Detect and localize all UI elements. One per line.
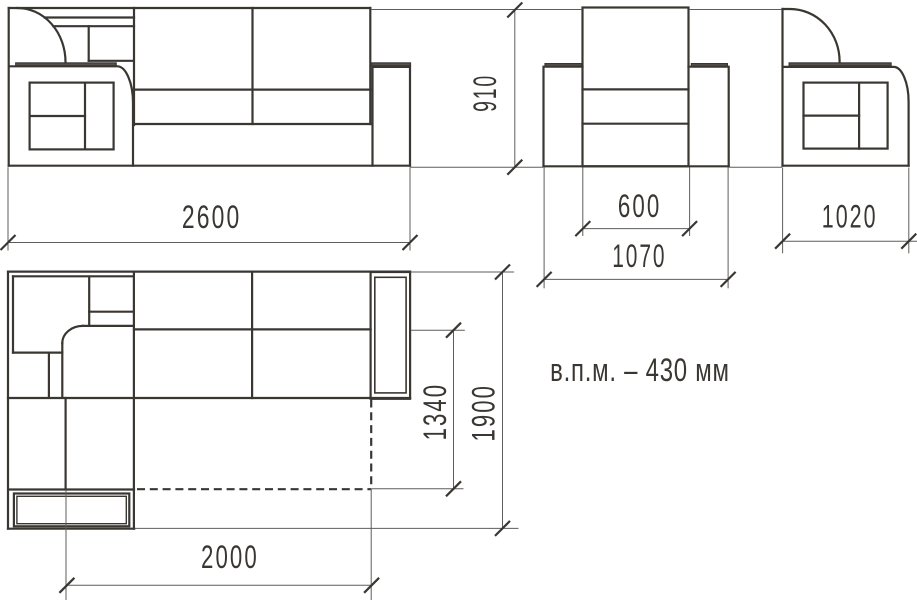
plan view: lower-left compartment shelf — [13, 352, 62, 354]
plan view: corner seat rounded corner — [62, 326, 83, 343]
sofa front view: corner compartment divider vertical — [84, 83, 86, 150]
dim 2600 extensions — [7, 167, 9, 250]
sofa front view: left shelf bar (filled) — [16, 63, 117, 66]
plan view: inner wall top — [13, 275, 134, 277]
plan view: footrest outer rect — [14, 494, 129, 527]
plan view: left edge — [7, 272, 9, 529]
chair front view: seat line lower — [583, 123, 689, 125]
plan view: footrest inner rect — [17, 496, 126, 523]
dim 1900 line — [502, 272, 504, 528]
ticks 2000 — [59, 578, 74, 593]
plan view: bottom edge — [8, 528, 134, 530]
ticks 600 — [575, 221, 590, 236]
svg-text:1900: 1900 — [465, 384, 501, 441]
side view: left edge — [781, 9, 783, 166]
sofa front view: corner compartment divider horizontal — [30, 115, 85, 117]
sofa front view: left canopy arc — [18, 8, 66, 62]
sofa front view: seat line upper — [134, 88, 370, 90]
extension: baseline between views — [411, 166, 544, 168]
bed extension dashed outline — [137, 400, 371, 490]
side view: compartment divider horizontal — [804, 114, 860, 116]
ticks 1020 — [775, 234, 790, 249]
dim 600 line — [583, 228, 690, 230]
extension: sofa top to 910 dim and to side view — [371, 9, 582, 11]
plan view: corner compartment shelf — [89, 311, 134, 313]
plan view: corner seat back line — [83, 325, 134, 327]
dim 1020 extensions — [782, 168, 784, 254]
sofa front view: right armrest top bar (filled) — [372, 63, 411, 66]
chair front view: seat line upper — [583, 88, 689, 90]
ticks 1340 — [446, 323, 461, 338]
chair front view: base line — [544, 165, 729, 167]
dim 910 line — [514, 10, 516, 167]
chair front view: left armrest body — [544, 67, 583, 167]
dimension texts — [182, 74, 878, 575]
sofa front view: base line — [9, 165, 410, 167]
sofa front view: corner compartment outer rect — [30, 83, 114, 150]
svg-text:2000: 2000 — [201, 539, 259, 575]
chair front view: right armrest body — [689, 67, 729, 167]
sofa front view: backrest left edge — [133, 8, 135, 125]
ticks 1900 — [495, 265, 510, 280]
sofa front view: backrest right edge — [369, 8, 371, 124]
chair front view: right armrest top bar (filled) — [691, 64, 727, 67]
side view: body top and right curve — [783, 67, 909, 166]
sofa front view: corner niche shelf — [89, 60, 134, 62]
sofa front view: backrest divider — [251, 8, 253, 124]
svg-text:600: 600 — [618, 188, 661, 224]
svg-text:1020: 1020 — [822, 198, 878, 234]
plan view: corner compartment vertical — [88, 277, 90, 326]
chair front view: left armrest top bar (filled) — [545, 64, 582, 67]
sofa front view: top line — [9, 7, 371, 9]
dim 1070 line — [544, 278, 728, 280]
svg-text:1340: 1340 — [417, 383, 453, 441]
sofa front view: seat line lower — [134, 123, 370, 125]
sofa front view: corner niche vertical — [88, 26, 90, 61]
dim 2000 extensions — [65, 490, 67, 600]
sofa front view: corner body top and right curve — [11, 66, 134, 165]
sofa front view: back rail line 2 — [53, 25, 134, 27]
side view: top canopy arc — [783, 9, 840, 62]
svg-text:в.п.м. – 430 мм: в.п.м. – 430 мм — [550, 351, 730, 387]
plan view: seat band bottom edge — [8, 397, 410, 399]
dim 1020 line — [783, 240, 917, 242]
side view: shelf bar (filled) — [789, 63, 891, 66]
plan view: top edge — [8, 271, 410, 273]
dim 1070 extensions — [543, 168, 545, 289]
plan view: chaise footrest top line — [9, 488, 134, 490]
dim 2000 line — [66, 584, 371, 586]
sofa front view: back rail line 1 — [45, 16, 134, 18]
side view: base line — [783, 165, 909, 167]
dim 2600 line — [8, 242, 410, 244]
plan view: corner seat left edge — [61, 343, 63, 398]
sofa front view: right armrest body — [373, 67, 411, 166]
plan view: armrest outer rect — [371, 272, 411, 399]
plan view: corner section divider (right of corner unit) — [133, 272, 135, 529]
ticks 910 — [507, 3, 522, 18]
dim 1340 line — [453, 330, 455, 489]
chair front view: backrest rectangle — [583, 8, 689, 167]
plan view: inner wall left — [12, 276, 14, 352]
plan view: chaise left seat edge — [64, 398, 66, 490]
dim 1340 extensions — [411, 329, 465, 331]
plan view: lower-left compartment divider — [48, 353, 50, 398]
dim 1900 extensions — [411, 271, 514, 273]
side view: compartment divider vertical — [858, 83, 860, 149]
side view: compartment outer rect — [804, 83, 888, 149]
plan view: armrest inner rect — [375, 277, 406, 393]
sofa front view: left edge — [8, 8, 10, 166]
svg-text:1070: 1070 — [612, 239, 666, 275]
plan view: seat back line — [134, 328, 371, 330]
dim 600 extensions — [582, 168, 584, 237]
svg-text:910: 910 — [467, 74, 503, 112]
svg-text:2600: 2600 — [182, 199, 241, 235]
ticks 1070 — [537, 272, 552, 287]
plan view: seat divider — [251, 272, 253, 398]
ticks 2600 — [1, 235, 16, 250]
